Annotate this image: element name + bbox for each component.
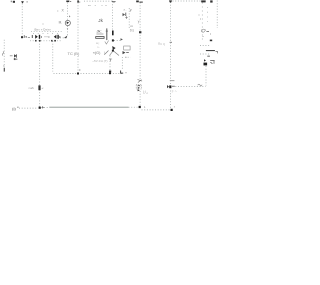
svg-text:Jk:: Jk: <box>97 29 102 34</box>
svg-text:~5V·0 A (T): ~5V·0 A (T) <box>92 59 107 63</box>
svg-text:x..: x.. <box>124 8 127 12</box>
svg-text:M.: M. <box>59 21 63 25</box>
svg-text:b's: b's <box>130 29 135 33</box>
svg-text:y:: y: <box>130 8 133 12</box>
svg-text:(•): (•) <box>12 107 15 111</box>
svg-text:∴·: ∴· <box>97 45 100 49</box>
svg-text:Ban + Daise: Ban + Daise <box>35 28 52 32</box>
svg-text:Ru q: Ru q <box>158 42 165 46</box>
svg-text:Jk: Jk <box>98 18 103 23</box>
svg-text:;|: ∴: ;|: ∴ <box>172 89 177 93</box>
svg-text:t.: t. <box>144 105 146 109</box>
svg-text:y: y <box>138 19 140 23</box>
svg-text:m: m <box>130 24 133 28</box>
svg-text:X: X <box>62 9 65 13</box>
svg-text:x: x <box>174 106 176 109</box>
svg-text:+:: +: <box>41 86 44 90</box>
svg-text:TC (B): TC (B) <box>68 51 80 56</box>
svg-text:r.ah: r.ah <box>29 86 34 90</box>
svg-text:«(G): «(G) <box>93 51 101 55</box>
svg-text:(·) ,: (·) , <box>143 89 148 93</box>
